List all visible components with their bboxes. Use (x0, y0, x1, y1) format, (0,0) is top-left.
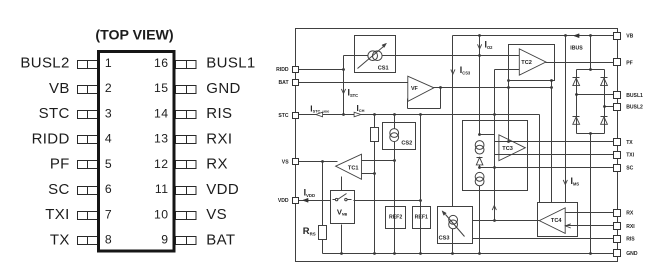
svg-text:IBUS: IBUS (570, 46, 583, 52)
svg-text:BUSL2: BUSL2 (20, 55, 69, 72)
svg-text:7: 7 (105, 207, 112, 221)
svg-text:GND: GND (626, 251, 638, 257)
svg-text:10: 10 (154, 207, 169, 221)
svg-text:TXI: TXI (626, 153, 635, 159)
svg-text:RIS: RIS (626, 237, 635, 243)
svg-text:1: 1 (105, 56, 112, 70)
svg-text:4: 4 (105, 132, 112, 146)
svg-text:BUSL2: BUSL2 (626, 105, 643, 111)
svg-text:6: 6 (105, 182, 112, 196)
svg-text:REF2: REF2 (389, 215, 402, 221)
svg-text:STC: STC (278, 113, 289, 119)
svg-text:RX: RX (626, 211, 634, 217)
svg-text:RX: RX (206, 156, 228, 173)
svg-text:5: 5 (105, 157, 112, 171)
svg-text:VB: VB (49, 80, 70, 97)
svg-text:BUSL1: BUSL1 (626, 93, 643, 99)
svg-text:TC1: TC1 (348, 166, 359, 172)
svg-text:PF: PF (626, 60, 633, 66)
svg-text:TX: TX (626, 140, 633, 146)
svg-text:CS1: CS1 (378, 66, 389, 72)
svg-text:15: 15 (154, 81, 169, 95)
svg-text:TC3: TC3 (502, 146, 513, 152)
svg-text:16: 16 (154, 56, 169, 70)
svg-text:STC: STC (39, 105, 70, 122)
svg-text:GND: GND (206, 80, 240, 97)
svg-text:14: 14 (154, 107, 169, 121)
svg-text:VDD: VDD (278, 198, 289, 204)
svg-text:PF: PF (50, 156, 70, 173)
svg-text:BUSL1: BUSL1 (206, 55, 255, 72)
svg-text:VDD: VDD (206, 181, 239, 198)
svg-text:RIDD: RIDD (276, 67, 289, 73)
svg-text:2: 2 (105, 81, 112, 95)
svg-text:VB: VB (626, 34, 633, 40)
svg-text:13: 13 (154, 132, 169, 146)
svg-text:SC: SC (626, 166, 633, 172)
svg-text:RIS: RIS (206, 105, 232, 122)
svg-text:RIDD: RIDD (32, 130, 70, 147)
svg-text:TC2: TC2 (521, 60, 532, 66)
svg-text:9: 9 (161, 233, 168, 247)
svg-text:VS: VS (282, 159, 289, 165)
svg-text:BAT: BAT (279, 80, 290, 86)
svg-text:11: 11 (155, 182, 169, 196)
svg-text:REF1: REF1 (415, 215, 428, 221)
svg-text:TXI: TXI (45, 206, 69, 223)
svg-text:8: 8 (105, 233, 112, 247)
svg-text:(TOP VIEW): (TOP VIEW) (95, 28, 174, 44)
svg-text:RXI: RXI (626, 224, 635, 230)
svg-text:TX: TX (50, 231, 70, 248)
svg-text:VF: VF (411, 86, 419, 92)
svg-text:12: 12 (154, 157, 169, 171)
svg-text:RXI: RXI (206, 130, 232, 147)
svg-text:SC: SC (48, 181, 70, 198)
svg-text:TC4: TC4 (551, 218, 562, 224)
svg-text:CS2: CS2 (401, 141, 412, 147)
svg-text:BAT: BAT (206, 231, 235, 248)
svg-text:CS3: CS3 (439, 235, 450, 241)
svg-text:VS: VS (206, 206, 227, 223)
svg-text:3: 3 (105, 107, 112, 121)
